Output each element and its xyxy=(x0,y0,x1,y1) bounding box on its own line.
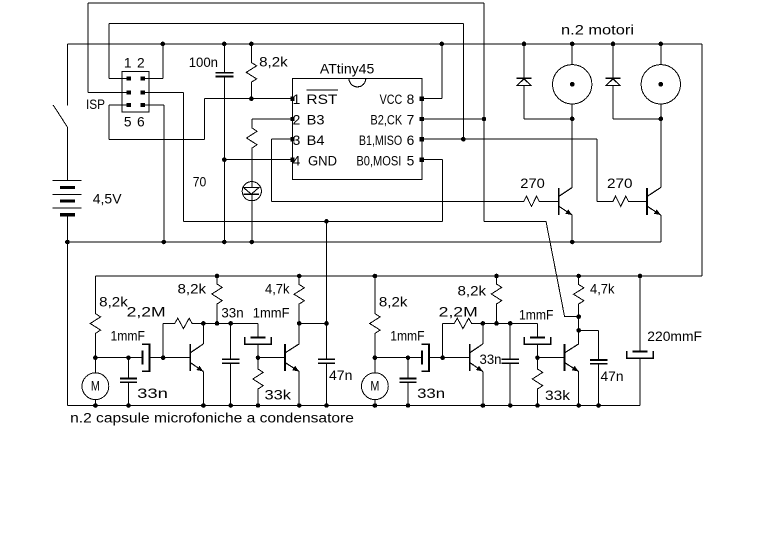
svg-text:33n: 33n xyxy=(137,386,168,402)
svg-text:70: 70 xyxy=(193,175,207,191)
svg-text:8,2k: 8,2k xyxy=(458,284,488,300)
svg-text:5: 5 xyxy=(407,153,415,168)
svg-text:33n: 33n xyxy=(221,306,243,322)
svg-text:M: M xyxy=(370,378,379,394)
svg-text:1: 1 xyxy=(293,92,301,107)
svg-text:4: 4 xyxy=(293,153,301,168)
svg-text:1mmF: 1mmF xyxy=(253,306,290,322)
svg-text:8,2k: 8,2k xyxy=(178,282,208,298)
svg-text:8: 8 xyxy=(407,92,415,107)
svg-text:3: 3 xyxy=(293,133,301,148)
svg-text:VCC: VCC xyxy=(380,92,403,108)
svg-text:1mmF: 1mmF xyxy=(111,329,146,345)
svg-text:n.2 capsule microfoniche a con: n.2 capsule microfoniche a condensatore xyxy=(70,411,354,427)
svg-text:6: 6 xyxy=(407,133,415,148)
svg-text:2: 2 xyxy=(293,113,301,128)
svg-text:47n: 47n xyxy=(601,369,624,385)
svg-text:RST: RST xyxy=(306,92,337,108)
svg-text:ISP: ISP xyxy=(86,97,105,113)
svg-text:4,5V: 4,5V xyxy=(93,191,122,207)
svg-text:M: M xyxy=(91,378,100,394)
svg-text:2,2M: 2,2M xyxy=(127,305,166,321)
svg-text:6: 6 xyxy=(137,115,145,130)
svg-text:33n: 33n xyxy=(480,352,502,368)
svg-text:2: 2 xyxy=(137,55,145,70)
svg-text:33k: 33k xyxy=(545,388,571,404)
svg-text:100n: 100n xyxy=(189,55,218,71)
svg-text:B1,MISO: B1,MISO xyxy=(359,133,402,149)
svg-text:B2,CK: B2,CK xyxy=(370,113,402,129)
svg-text:1mmF: 1mmF xyxy=(519,308,554,324)
svg-text:8,2k: 8,2k xyxy=(99,295,129,311)
svg-text:33n: 33n xyxy=(417,386,445,402)
svg-text:ATtiny45: ATtiny45 xyxy=(320,61,375,77)
svg-text:B4: B4 xyxy=(307,133,325,149)
svg-text:1: 1 xyxy=(124,55,132,70)
svg-text:4,7k: 4,7k xyxy=(590,282,615,298)
svg-text:8,2k: 8,2k xyxy=(379,295,409,311)
svg-text:B3: B3 xyxy=(307,113,325,129)
svg-text:8,2k: 8,2k xyxy=(259,55,289,71)
svg-text:7: 7 xyxy=(407,113,415,128)
svg-text:47n: 47n xyxy=(329,368,352,384)
svg-text:1mmF: 1mmF xyxy=(390,329,425,345)
svg-text:220mmF: 220mmF xyxy=(647,329,702,345)
svg-text:270: 270 xyxy=(607,176,633,192)
svg-text:33k: 33k xyxy=(265,388,293,404)
svg-text:2,2M: 2,2M xyxy=(439,305,478,321)
svg-text:B0,MOSI: B0,MOSI xyxy=(356,153,401,169)
svg-text:5: 5 xyxy=(124,115,132,130)
svg-text:270: 270 xyxy=(520,176,545,192)
svg-text:4,7k: 4,7k xyxy=(265,282,290,298)
svg-text:n.2 motori: n.2 motori xyxy=(561,23,634,39)
svg-text:GND: GND xyxy=(308,153,337,169)
